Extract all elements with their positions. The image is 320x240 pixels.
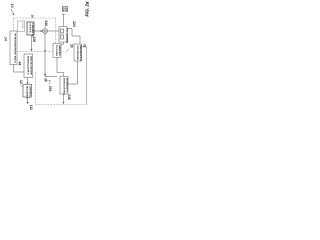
block B2 (bold, IF amp) <box>27 22 34 38</box>
wire T1 bottom L to T2 <box>14 65 25 73</box>
svg-text:228: 228 <box>64 6 68 12</box>
svg-text:OSC REFEREN: OSC REFEREN <box>65 28 67 44</box>
svg-text:100: 100 <box>32 37 36 43</box>
label 12 with arrow <box>19 80 23 87</box>
svg-text:FILTER IC: FILTER IC <box>29 24 31 34</box>
wire B2 to mixer <box>34 30 42 32</box>
wire mixer down <box>44 33 46 76</box>
wire B3 bottom L to B4 <box>58 42 64 44</box>
svg-text:BANDPASS: BANDPASS <box>58 45 61 56</box>
block T3 (right tall) <box>74 44 82 62</box>
dashed box B left edge <box>35 72 37 105</box>
svg-text:DATA SLICER AMP: DATA SLICER AMP <box>30 56 33 75</box>
dashed box A right edge <box>55 18 57 43</box>
wire B5 down arrow + label <box>27 97 33 110</box>
svg-text:SYNTHESIZER: SYNTHESIZER <box>76 45 78 60</box>
block T2 (center-left tall) <box>24 54 33 78</box>
svg-text:IF FILTERS: IF FILTERS <box>55 45 57 57</box>
svg-text:INTERFACE IC: INTERFACE IC <box>66 78 69 93</box>
wire T2 down arrow <box>27 78 29 84</box>
wire horizontal at y76.5 <box>45 76 57 78</box>
wire L to T3 with label 24 <box>67 21 80 43</box>
mixer circle <box>43 29 48 34</box>
svg-text:246: 246 <box>44 21 48 27</box>
dashed box A left edge <box>13 18 15 31</box>
dashed box A bottom edge (divider) <box>17 51 54 53</box>
svg-text:DEMODULATOR IC: DEMODULATOR IC <box>26 56 29 75</box>
svg-text:32: 32 <box>82 44 86 48</box>
svg-text:10: 10 <box>10 4 14 8</box>
svg-text:112: 112 <box>29 105 33 110</box>
block B4 <box>53 44 61 58</box>
block B3 (with two inner rects) <box>59 27 67 44</box>
block B1 (faint, top-left inner) <box>18 21 25 32</box>
svg-text:236: 236 <box>48 86 52 92</box>
svg-text:FIG. 2a: FIG. 2a <box>84 1 89 17</box>
svg-text:14: 14 <box>4 37 8 41</box>
dashed box B bottom edge <box>36 104 87 106</box>
svg-text:16: 16 <box>30 15 34 19</box>
label 36 with leader <box>47 80 52 91</box>
svg-text:238: 238 <box>67 94 71 100</box>
wire B6 down arrow + label 38 <box>63 94 72 104</box>
svg-text:34: 34 <box>43 78 47 82</box>
svg-text:MICROCONTROL: MICROCONTROL <box>62 78 64 96</box>
svg-text:CONTROL L: CONTROL L <box>29 86 31 99</box>
label 30 with leader <box>66 44 74 52</box>
block B5 <box>23 85 32 100</box>
block B6 <box>60 77 69 96</box>
wire B2 down arrow with label <box>31 35 36 51</box>
antenna wire into B3 <box>61 6 68 27</box>
svg-text:224: 224 <box>72 21 76 27</box>
dashed box A top edge <box>14 17 56 19</box>
wire T3 right feedback down <box>82 47 87 105</box>
svg-text:RF RECEIVER FRONT END IC: RF RECEIVER FRONT END IC <box>13 34 15 64</box>
wire mixer to B3 <box>47 30 59 32</box>
svg-text:DECODER IC: DECODER IC <box>25 86 27 100</box>
svg-text:30: 30 <box>70 44 74 48</box>
svg-text:REFERENCE PL: REFERENCE PL <box>79 45 81 62</box>
svg-text:44: 44 <box>17 62 21 66</box>
label 34 with line near x50 <box>43 78 47 82</box>
wire T3 down to B6 <box>68 61 78 84</box>
wire B4 down to B6 <box>57 58 64 77</box>
svg-text:12: 12 <box>19 80 23 84</box>
block T1 (left tall, straddles boundary) <box>10 31 17 65</box>
label 10 <box>10 4 15 16</box>
svg-text:FILTER: FILTER <box>21 22 23 29</box>
